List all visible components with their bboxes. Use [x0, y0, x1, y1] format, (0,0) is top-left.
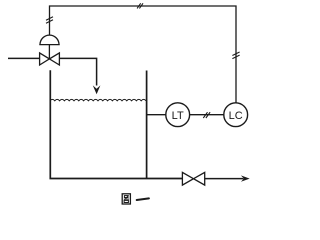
arrowhead: feed discharging into tank — [93, 85, 101, 94]
instrument LT (level transmitter) — [166, 103, 190, 127]
pneumatic double-slash between LT and LC — [203, 112, 210, 118]
wire: valve stem — [48, 45, 50, 59]
wire: valve outlet to tank, turning down — [59, 58, 96, 85]
wire: tank wall to LT — [147, 114, 166, 116]
tank left wall and bottom — [50, 70, 182, 178]
wire: inlet pipe into control valve — [8, 57, 40, 59]
instrument LC (level controller) — [224, 103, 248, 127]
svg-text:LT: LT — [172, 110, 184, 122]
outlet valve (manual, bowtie) — [182, 172, 204, 185]
actuator diaphragm (dome) on valve — [39, 35, 59, 45]
pneumatic double-slash on right vertical signal — [232, 52, 239, 59]
arrowhead: outlet flow direction — [241, 175, 250, 181]
control valve V1 (bowtie body) — [40, 53, 60, 65]
wire: pneumatic signal line from actuator up, across top, down to LC — [50, 6, 237, 103]
pneumatic double-slash on vertical signal above actuator — [46, 17, 53, 23]
wire: LT to LC — [190, 114, 224, 116]
liquid surface (wavy line) — [50, 99, 146, 100]
tank right wall — [146, 71, 148, 179]
pneumatic double-slash on top horizontal signal — [137, 3, 143, 8]
svg-text:LC: LC — [229, 110, 243, 122]
caption character 一 (drawn) — [137, 198, 149, 200]
caption character 圖 (drawn) — [122, 194, 130, 204]
wire: outlet line to drain — [205, 178, 244, 180]
